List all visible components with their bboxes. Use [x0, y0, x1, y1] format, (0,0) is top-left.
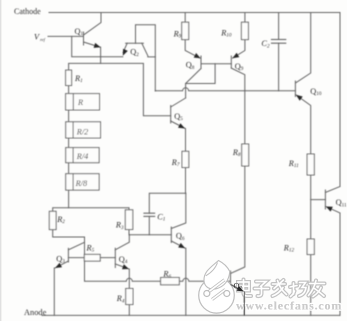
svg-text:R/2: R/2 [76, 127, 89, 136]
svg-text:R/4: R/4 [76, 152, 89, 161]
svg-text:www.elecfans.com: www.elecfans.com [236, 299, 342, 313]
svg-text:R: R [77, 98, 83, 107]
svg-text:R/8: R/8 [75, 179, 88, 188]
svg-text:Anode: Anode [24, 308, 47, 317]
svg-text:ref: ref [40, 37, 46, 42]
svg-text:Cathode: Cathode [14, 7, 41, 16]
